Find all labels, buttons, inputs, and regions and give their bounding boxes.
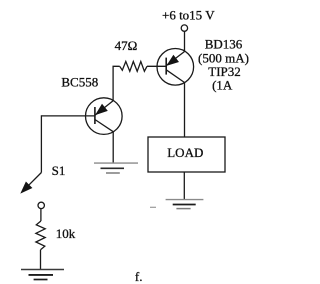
- svg-text:47Ω: 47Ω: [115, 38, 138, 53]
- svg-text:f.: f.: [135, 269, 143, 284]
- svg-text:10k: 10k: [56, 226, 76, 241]
- svg-text:BC558: BC558: [61, 74, 98, 89]
- svg-text:BD136: BD136: [205, 37, 243, 52]
- svg-text:+6 to15 V: +6 to15 V: [162, 8, 215, 23]
- svg-text:S1: S1: [52, 163, 66, 178]
- svg-text:LOAD: LOAD: [167, 145, 203, 160]
- svg-text:(1A: (1A: [212, 78, 233, 93]
